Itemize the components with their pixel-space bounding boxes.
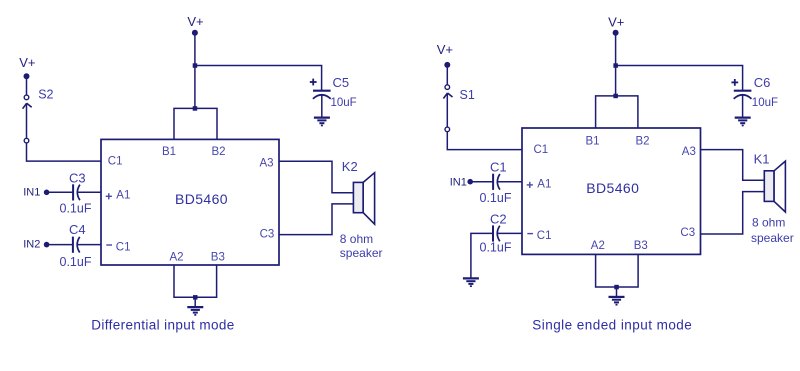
svg-text:C6: C6 — [754, 75, 771, 90]
caption circuit 2 — [532, 318, 692, 333]
switch S1 — [443, 85, 474, 132]
power V+ node (circuit 2 top) — [608, 15, 624, 36]
power V+ node (switch S2 branch) — [19, 55, 35, 79]
wire C3 pin to speaker K1 — [701, 192, 765, 234]
wire B1-B2 top tab 2 — [596, 96, 638, 128]
svg-text:A3: A3 — [260, 157, 274, 169]
svg-text:C3: C3 — [69, 170, 86, 185]
ground (C5) — [314, 118, 330, 126]
wire C2 cap to C1- pin — [497, 232, 522, 234]
svg-text:IN1: IN1 — [450, 177, 467, 189]
svg-text:B2: B2 — [636, 136, 650, 148]
speaker K2 — [340, 159, 383, 260]
svg-text:IN2: IN2 — [23, 239, 40, 251]
wire V+ bus to C5 — [195, 66, 322, 91]
wire A3 to speaker K2 — [279, 161, 353, 193]
wire C4 to C1- pin — [77, 244, 101, 246]
capacitor C6 10uF — [731, 75, 778, 117]
svg-text:8 ohm: 8 ohm — [340, 232, 373, 246]
wire C3 to A1 pin — [78, 191, 102, 193]
pin label + A1 (U2) — [527, 178, 552, 190]
wire V+ to switch — [26, 76, 28, 95]
pin label - C1 (U2) — [527, 230, 551, 242]
junction node tab top 2 — [613, 94, 618, 99]
pin label A3 (U2) — [682, 146, 696, 158]
svg-text:10uF: 10uF — [752, 97, 778, 109]
power V+ node (switch S1 branch) — [437, 42, 453, 68]
wire C1 cap to A1 pin — [497, 181, 522, 183]
svg-text:B2: B2 — [212, 146, 226, 158]
svg-text:Single ended input mode: Single ended input mode — [532, 318, 692, 333]
svg-text:C3: C3 — [260, 228, 275, 240]
svg-text:A1: A1 — [116, 190, 130, 202]
pin label B2 — [212, 146, 226, 158]
wire IN1 to C1 cap — [470, 181, 493, 183]
ground (U2) — [609, 287, 625, 305]
pin label B2 (U2) — [636, 136, 650, 148]
svg-text:Differential input mode: Differential input mode — [91, 318, 234, 333]
pin label C1 — [108, 155, 123, 167]
svg-text:S2: S2 — [38, 88, 53, 102]
ground (U1) — [187, 297, 203, 315]
svg-text:C4: C4 — [69, 222, 86, 237]
switch S2 — [23, 88, 54, 143]
svg-text:C2: C2 — [490, 211, 507, 226]
pin label B1 — [162, 146, 176, 158]
svg-text:A3: A3 — [682, 146, 696, 158]
wire S2 to C1 pin — [27, 143, 102, 161]
junction node tab top — [193, 106, 198, 111]
pin label B3 — [211, 252, 225, 264]
ground (C2) — [463, 278, 479, 286]
wire C2 cap to ground — [471, 233, 493, 278]
wire V+ bus to C6 — [616, 66, 743, 91]
svg-text:0.1uF: 0.1uF — [480, 191, 512, 205]
wire A2-B3 bottom tab 2 — [596, 254, 639, 287]
pin label B1 (U2) — [586, 136, 600, 148]
wire A2-B3 bottom tab — [174, 265, 217, 297]
pin label A2 — [170, 252, 184, 264]
svg-text:B1: B1 — [162, 146, 176, 158]
wire B1-B2 top tab — [174, 108, 217, 139]
wire S1 to C1 pin — [447, 132, 522, 150]
pin label C3 — [260, 228, 275, 240]
svg-text:0.1uF: 0.1uF — [60, 202, 92, 216]
capacitor C2 0.1uF — [480, 211, 512, 254]
svg-text:C1: C1 — [116, 242, 131, 254]
speaker K1 — [751, 151, 794, 244]
wire C3 pin to speaker K2 — [279, 204, 353, 235]
node IN1 (circuit 2) — [450, 177, 473, 189]
junction node V+ bus 2 — [613, 63, 618, 68]
svg-text:speaker: speaker — [751, 231, 794, 245]
svg-text:C1: C1 — [490, 160, 507, 175]
wire IN2 to C4 — [47, 244, 73, 246]
svg-text:0.1uF: 0.1uF — [480, 240, 512, 254]
junction node bottom tab — [193, 295, 198, 300]
capacitor C1 0.1uF — [480, 160, 512, 205]
svg-text:0.1uF: 0.1uF — [60, 255, 92, 269]
wire A3 to speaker K1 — [701, 150, 765, 181]
ground (C6) — [735, 118, 751, 126]
pin label + A1 — [106, 190, 131, 202]
svg-text:V+: V+ — [187, 14, 203, 29]
caption circuit 1 — [91, 318, 234, 333]
pin label - C1 — [106, 242, 130, 254]
junction node V+ bus — [193, 63, 198, 68]
wire V+ stem to B1B2 tab — [194, 33, 196, 109]
svg-text:C1: C1 — [537, 230, 552, 242]
svg-text:C5: C5 — [333, 75, 350, 90]
svg-text:8 ohm: 8 ohm — [752, 216, 785, 230]
svg-text:A2: A2 — [591, 240, 605, 252]
svg-text:B1: B1 — [586, 136, 600, 148]
pin label B3 (U2) — [634, 240, 648, 252]
wire IN1 to C3 — [47, 191, 74, 193]
pin label C3 (U2) — [680, 227, 695, 239]
node IN2 — [23, 239, 49, 251]
pin label A3 — [260, 157, 274, 169]
svg-text:K2: K2 — [342, 159, 358, 174]
op-amp U1 BD5460 body — [101, 139, 279, 265]
capacitor C5 10uF — [310, 75, 357, 117]
pin label A2 (U2) — [591, 240, 605, 252]
svg-text:BD5460: BD5460 — [586, 180, 639, 196]
svg-text:S1: S1 — [460, 88, 475, 102]
capacitor C3 0.1uF — [60, 170, 92, 215]
svg-text:10uF: 10uF — [331, 97, 357, 109]
svg-text:V+: V+ — [19, 55, 35, 70]
svg-text:IN1: IN1 — [23, 186, 40, 198]
junction node bottom tab 2 — [614, 285, 619, 290]
svg-text:C1: C1 — [534, 144, 549, 156]
svg-text:C3: C3 — [680, 227, 695, 239]
svg-text:A1: A1 — [537, 178, 551, 190]
svg-text:V+: V+ — [608, 15, 624, 30]
svg-text:C1: C1 — [108, 155, 123, 167]
svg-text:B3: B3 — [634, 240, 648, 252]
wire V+ stem to tab — [615, 33, 617, 96]
svg-text:B3: B3 — [211, 252, 225, 264]
capacitor C4 0.1uF — [60, 222, 92, 269]
op-amp U2 BD5460 body — [522, 128, 701, 254]
node IN1 — [23, 186, 49, 198]
svg-text:speaker: speaker — [340, 246, 383, 260]
wire V+ to switch S1 — [446, 65, 448, 85]
power V+ node (circuit 1 top) — [187, 14, 203, 36]
svg-text:K1: K1 — [754, 151, 770, 166]
svg-text:A2: A2 — [170, 252, 184, 264]
svg-text:V+: V+ — [437, 42, 453, 57]
pin label C1 (U2) — [534, 144, 549, 156]
svg-text:BD5460: BD5460 — [175, 191, 228, 207]
